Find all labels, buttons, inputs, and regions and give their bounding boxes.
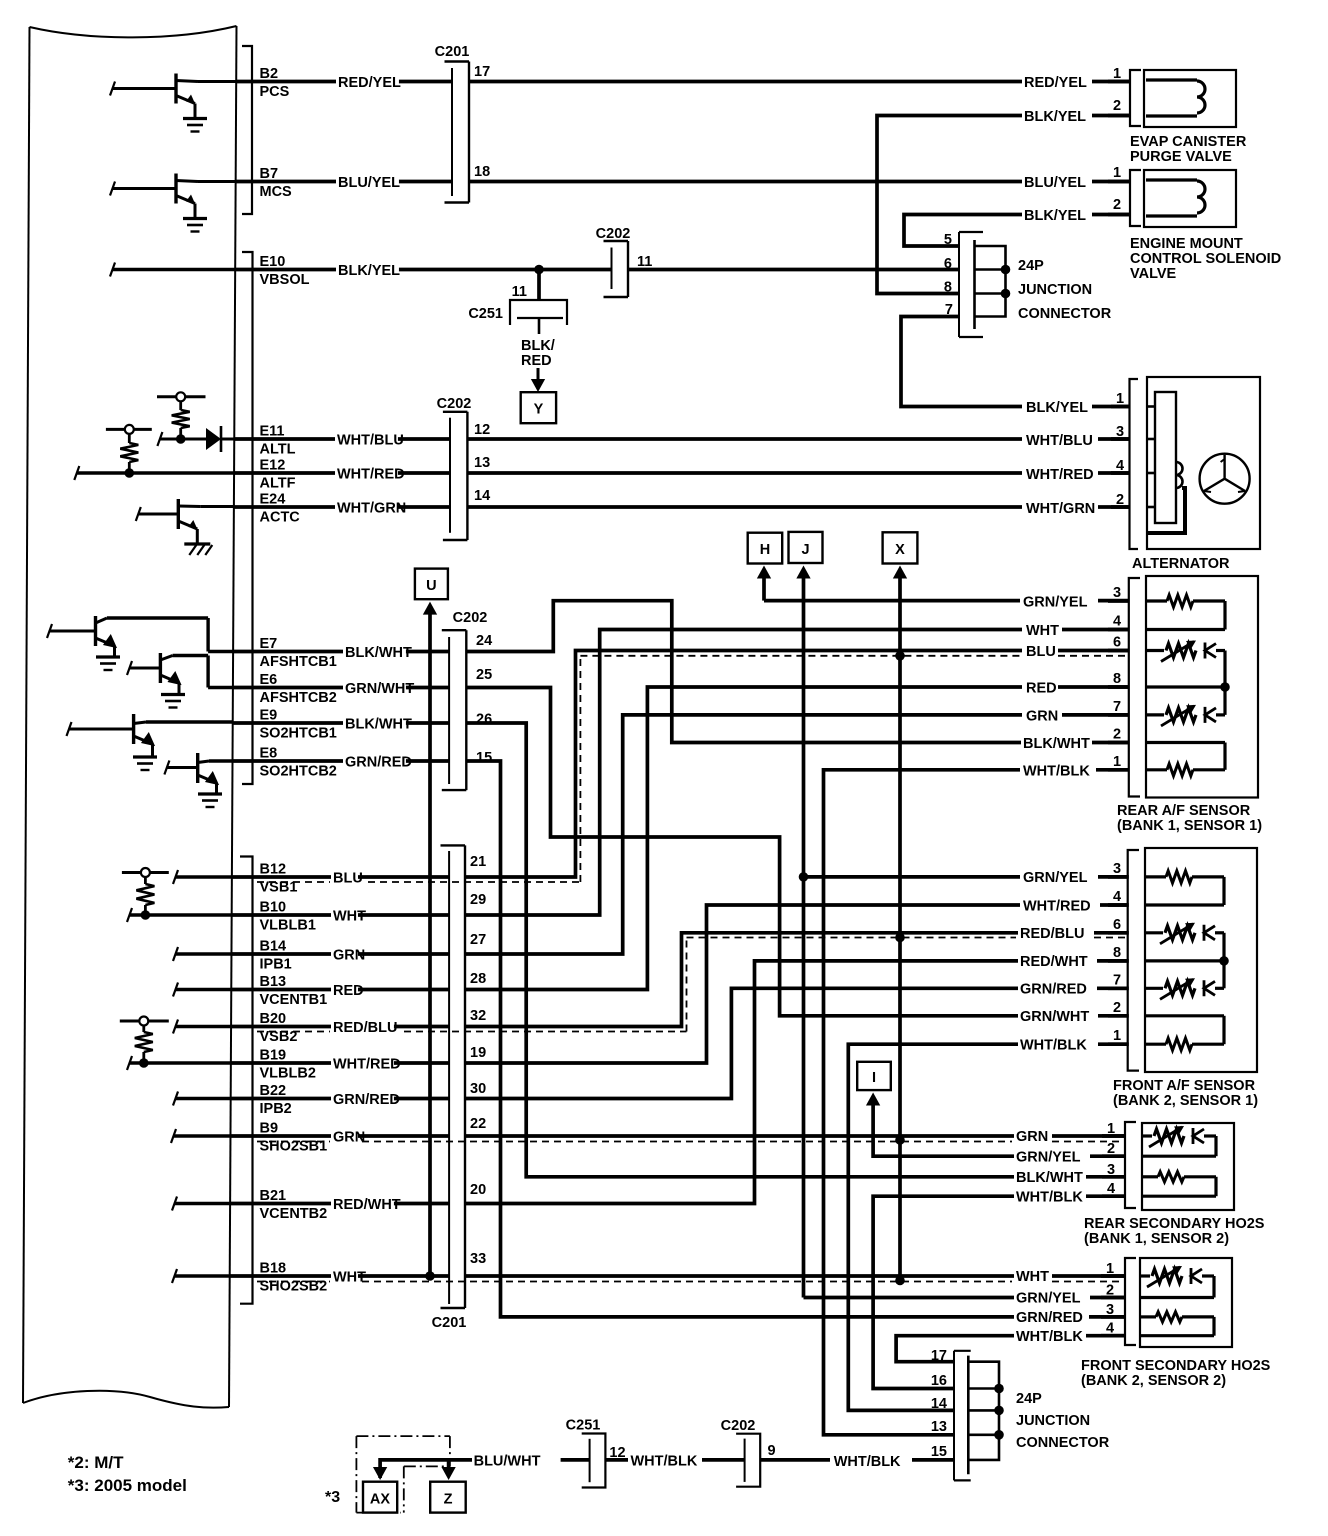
svg-text:24P: 24P <box>1016 1391 1042 1407</box>
wire BLU/WHT to C251 <box>561 1458 590 1462</box>
wire WHT/BLK front secondary pin4 to junction pin17 <box>1086 1334 1126 1338</box>
wire B19 to C201 <box>231 1061 449 1065</box>
wire WHT/BLK front A/F pin1 to junction pin14 <box>1098 1042 1129 1046</box>
label WHT/GRN on E24 wire <box>335 501 398 514</box>
svg-text:GRN/YEL: GRN/YEL <box>1023 595 1088 611</box>
wire B20 internal <box>173 1020 178 1034</box>
label BLK/YEL (alternator) <box>1024 401 1087 414</box>
svg-text:2: 2 <box>1113 1000 1121 1016</box>
svg-text:WHT/BLK: WHT/BLK <box>1016 1329 1083 1345</box>
svg-text:26: 26 <box>476 712 492 728</box>
svg-text:CONTROL SOLENOID: CONTROL SOLENOID <box>1130 251 1281 267</box>
svg-text:B21: B21 <box>260 1188 287 1204</box>
arrow into X <box>893 566 907 579</box>
wire E8 to C202 <box>233 759 450 763</box>
svg-text:30: 30 <box>470 1081 486 1097</box>
svg-text:21: 21 <box>470 854 486 870</box>
rear A/F sensor heater row 7 <box>1146 713 1164 716</box>
svg-text:GRN/YEL: GRN/YEL <box>1023 870 1088 886</box>
svg-text:29: 29 <box>470 892 486 908</box>
label BLK/WHT on E7 wire <box>343 646 406 659</box>
svg-text:Y: Y <box>534 402 544 418</box>
svg-text:RED/WHT: RED/WHT <box>1020 954 1088 970</box>
label BLU/YEL on B7 wire <box>336 176 399 189</box>
rear A/F sensor row 8 junction <box>1146 685 1225 688</box>
svg-text:RED: RED <box>333 983 364 999</box>
svg-text:JUNCTION: JUNCTION <box>1016 1413 1090 1429</box>
rear A/F sensor heater row 6 <box>1146 649 1164 652</box>
wire B12 internal <box>173 870 178 884</box>
svg-text:WHT/RED: WHT/RED <box>1023 899 1091 915</box>
transistor Q3 (ACTC driver) <box>177 499 180 529</box>
arrow into H <box>757 566 771 579</box>
svg-text:BLU/YEL: BLU/YEL <box>1024 175 1086 191</box>
transistor Q7 (SO2HTCB2 driver) <box>196 753 199 783</box>
engine mount valve bracket <box>1130 170 1141 226</box>
label WHT/RED right <box>1024 468 1087 481</box>
connector box H <box>748 533 783 564</box>
wire B2 RED/YEL to C201 <box>236 80 452 84</box>
pin group bracket B2-B7 <box>242 46 252 214</box>
wire RED pin28 to rear A/F pin8 <box>465 687 1022 990</box>
svg-text:CONNECTOR: CONNECTOR <box>1018 306 1112 322</box>
svg-text:RED/WHT: RED/WHT <box>333 1197 401 1213</box>
wire E10 BLK/YEL to junction connector <box>235 268 611 272</box>
svg-text:BLK/YEL: BLK/YEL <box>338 263 400 279</box>
connector box X <box>883 532 918 563</box>
wire B9 internal <box>171 1129 176 1143</box>
label WHT/RED on E12 wire <box>335 467 398 480</box>
svg-text:(BANK 1, SENSOR 1): (BANK 1, SENSOR 1) <box>1117 818 1262 834</box>
svg-text:(BANK 2, SENSOR 1): (BANK 2, SENSOR 1) <box>1113 1093 1258 1109</box>
svg-text:B22: B22 <box>260 1083 287 1099</box>
svg-text:7: 7 <box>1113 972 1121 988</box>
svg-text:B14: B14 <box>260 939 287 955</box>
alternator body <box>1147 377 1260 549</box>
label BLK/YEL (engine mount) <box>1022 209 1085 222</box>
svg-text:BLK/WHT: BLK/WHT <box>1023 736 1090 752</box>
wire B22 internal <box>173 1092 178 1106</box>
label RED on B13 wire <box>331 984 358 997</box>
wire B20 to C201 <box>231 1025 449 1029</box>
svg-text:WHT/RED: WHT/RED <box>1026 467 1094 483</box>
svg-text:E11: E11 <box>260 424 285 440</box>
svg-text:VBSOL: VBSOL <box>260 272 310 288</box>
connector box I <box>857 1062 891 1090</box>
svg-text:ALTF: ALTF <box>260 476 296 492</box>
svg-text:FRONT A/F SENSOR: FRONT A/F SENSOR <box>1113 1078 1256 1094</box>
label WHT/GRN right <box>1024 502 1087 515</box>
wire B19 internal <box>127 1056 132 1070</box>
svg-text:B20: B20 <box>260 1011 287 1027</box>
junction dot B19 node <box>139 1058 149 1068</box>
svg-text:C202: C202 <box>453 610 488 626</box>
wire GRN/YEL front A/F pin3 <box>804 875 1021 879</box>
connector box J <box>789 532 823 563</box>
svg-text:RED/YEL: RED/YEL <box>1024 75 1087 91</box>
rear secondary HO2S bracket <box>1125 1122 1136 1208</box>
wire B9 to C201 <box>230 1134 449 1138</box>
wire B13 internal <box>173 983 178 997</box>
wire BLK/WHT pin24 to rear A/F pin2 <box>466 601 1022 743</box>
transistor Q5 (AFSHTCB2 driver) <box>159 653 162 683</box>
wire GRN/WHT pin25 to front A/F pin2 <box>466 688 1022 1016</box>
wire BLK/YEL engine mount pin2 <box>1092 213 1130 217</box>
svg-text:ALTERNATOR: ALTERNATOR <box>1132 556 1230 572</box>
connector box AX <box>363 1482 397 1513</box>
EVAP valve bracket <box>1130 70 1141 126</box>
svg-text:SO2HTCB1: SO2HTCB1 <box>260 726 337 742</box>
svg-text:15: 15 <box>931 1444 947 1460</box>
shield dashes B9 GRN net <box>257 1141 330 1143</box>
svg-text:E9: E9 <box>260 708 278 724</box>
wire GRN/RED pin15 to front secondary HO2S pin3 <box>466 761 1014 1317</box>
front secondary HO2S bracket <box>1125 1258 1136 1345</box>
svg-text:22: 22 <box>470 1116 486 1132</box>
svg-text:4: 4 <box>1113 614 1121 630</box>
svg-text:WHT: WHT <box>333 1270 366 1286</box>
svg-text:GRN/RED: GRN/RED <box>1016 1310 1083 1326</box>
transistor Q6 (SO2HTCB1 driver) <box>132 714 135 744</box>
wire WHT pin29 to rear A/F pin4 <box>465 630 1022 916</box>
wire WHT/BLK rear secondary pin4 to junction pin16 <box>1086 1194 1126 1198</box>
svg-text:E24: E24 <box>260 492 286 508</box>
svg-text:7: 7 <box>1113 699 1121 715</box>
wire B14 internal <box>173 947 178 961</box>
svg-text:24: 24 <box>476 633 492 649</box>
svg-text:REAR A/F SENSOR: REAR A/F SENSOR <box>1117 803 1251 819</box>
wire GRN pin22 to rear secondary HO2S pin1 <box>465 1134 1014 1138</box>
svg-text:2: 2 <box>1113 727 1121 743</box>
svg-text:BLU: BLU <box>333 871 363 887</box>
svg-text:17: 17 <box>474 64 490 80</box>
wire GRN/RED pin30 to front A/F pin7 <box>465 988 1018 1098</box>
svg-text:X: X <box>895 542 905 558</box>
svg-text:24P: 24P <box>1018 258 1044 274</box>
svg-text:WHT/BLK: WHT/BLK <box>1020 1038 1087 1054</box>
junction dot 24P pin6 <box>1001 265 1011 275</box>
wire GRN pin27 to rear A/F pin7 <box>465 715 1022 954</box>
svg-text:WHT: WHT <box>1026 623 1059 639</box>
svg-text:BLK/WHT: BLK/WHT <box>345 645 412 661</box>
shield dashes B18 WHT net <box>257 1281 330 1283</box>
wire C251 branch down <box>537 270 541 301</box>
svg-text:13: 13 <box>474 455 490 471</box>
svg-text:U: U <box>426 578 436 594</box>
label BLK/WHT on E9 wire <box>343 717 406 730</box>
svg-text:REAR SECONDARY HO2S: REAR SECONDARY HO2S <box>1084 1216 1265 1232</box>
svg-text:WHT/BLK: WHT/BLK <box>631 1454 698 1470</box>
svg-text:J: J <box>801 542 809 558</box>
branch to Z <box>447 1460 451 1467</box>
svg-text:1: 1 <box>1113 754 1121 770</box>
svg-text:28: 28 <box>470 971 486 987</box>
svg-text:B12: B12 <box>260 862 287 878</box>
labels front secondary HO2S wires <box>1014 1270 1041 1283</box>
svg-text:VCENTB1: VCENTB1 <box>260 992 328 1008</box>
labels rear secondary HO2S wires <box>1014 1130 1041 1143</box>
svg-text:WHT/GRN: WHT/GRN <box>337 501 406 517</box>
wire B21 to C201 <box>230 1202 449 1206</box>
svg-text:VCENTB2: VCENTB2 <box>260 1206 328 1222</box>
wire B18 internal <box>172 1269 177 1283</box>
front A/F sensor connector bracket <box>1128 850 1139 1071</box>
svg-text:C251: C251 <box>468 306 503 322</box>
svg-text:GRN/YEL: GRN/YEL <box>1016 1291 1081 1307</box>
label WHT/BLU on E11 wire <box>335 433 398 446</box>
svg-text:GRN/RED: GRN/RED <box>1020 982 1087 998</box>
front secondary HO2S heater rows 1-2 <box>1140 1274 1150 1277</box>
wire B21 internal <box>172 1197 177 1211</box>
wire E12 to C202 <box>234 471 450 475</box>
svg-text:GRN/WHT: GRN/WHT <box>345 681 414 697</box>
svg-text:BLK/YEL: BLK/YEL <box>1026 400 1088 416</box>
arrow into AX <box>373 1467 387 1480</box>
svg-text:PURGE VALVE: PURGE VALVE <box>1130 149 1232 165</box>
wire E6 to C202 <box>233 686 449 690</box>
arrow into U <box>423 602 437 615</box>
rear A/F sensor body <box>1146 576 1258 798</box>
pull-up circuit for VLBLB1 (circle, resistor R3) <box>122 871 169 874</box>
svg-text:WHT/BLK: WHT/BLK <box>834 1454 901 1470</box>
wire GRN/YEL net J vertical <box>802 577 806 1298</box>
wire RED/BLU pin32 to front A/F pin6 <box>465 933 1018 1027</box>
wire 13 WHT/RED <box>467 471 1022 475</box>
svg-text:ALTL: ALTL <box>260 442 296 458</box>
label GRN/WHT on E6 wire <box>343 682 406 695</box>
label WHT on B18 wire <box>331 1270 358 1283</box>
transistor Q4 (AFSHTCB1 driver) <box>94 616 97 646</box>
front A/F sensor internal rows 2-1 <box>1145 1014 1224 1017</box>
svg-text:PCS: PCS <box>260 84 290 100</box>
rear secondary HO2S body <box>1142 1123 1234 1210</box>
svg-text:GRN: GRN <box>1016 1129 1048 1145</box>
svg-text:11: 11 <box>637 254 652 270</box>
wire BLK/YEL EVAP pin2 <box>1092 114 1130 118</box>
rear A/F sensor connector bracket <box>1129 578 1140 797</box>
svg-text:WHT/BLK: WHT/BLK <box>1023 764 1090 780</box>
EVAP valve body <box>1144 70 1236 127</box>
svg-text:14: 14 <box>931 1396 947 1412</box>
label RED/YEL on B2 wire <box>336 76 399 89</box>
svg-text:SO2HTCB2: SO2HTCB2 <box>260 764 337 780</box>
svg-text:1: 1 <box>1113 66 1121 82</box>
wire B14 to C201 <box>231 952 449 956</box>
label GRN on B14 wire <box>331 948 358 961</box>
svg-text:Z: Z <box>444 1492 453 1508</box>
front A/F sensor heater row 6 <box>1145 931 1163 934</box>
label WHT on B10 wire <box>331 909 358 922</box>
svg-text:6: 6 <box>1113 635 1121 651</box>
wire BLU/WHT to AX/Z <box>380 1460 472 1478</box>
svg-text:IPB1: IPB1 <box>260 957 292 973</box>
svg-text:C201: C201 <box>432 1315 467 1331</box>
svg-text:BLK/YEL: BLK/YEL <box>1024 109 1086 125</box>
svg-text:GRN/WHT: GRN/WHT <box>1020 1009 1089 1025</box>
connector C201 (long, pins 21-33) <box>441 844 466 846</box>
svg-text:RED/BLU: RED/BLU <box>333 1020 397 1036</box>
svg-text:18: 18 <box>474 164 490 180</box>
wire GRN/YEL rear secondary pin2 from I box <box>1090 1154 1126 1158</box>
wire WHT/BLK C202 to junction pin15 <box>760 1458 830 1462</box>
pull-up circuit for ALTF (circle, resistor R2) <box>106 428 152 431</box>
svg-text:1: 1 <box>1113 165 1121 181</box>
svg-text:GRN/RED: GRN/RED <box>345 755 412 771</box>
svg-text:2: 2 <box>1113 197 1121 213</box>
svg-text:VSB2: VSB2 <box>260 1029 298 1045</box>
svg-text:AFSHTCB1: AFSHTCB1 <box>260 654 337 670</box>
junction dot X WHT shield <box>895 1276 905 1286</box>
wire B7 BLU/YEL to C201 <box>236 180 452 184</box>
wire E24 to C202 <box>234 505 450 509</box>
label WHT/RED on B19 wire <box>331 1057 394 1070</box>
pull-up circuit for ALTL (circle, resistor R1) <box>157 395 206 398</box>
svg-text:C202: C202 <box>437 396 472 412</box>
front A/F sensor body <box>1145 848 1257 1072</box>
svg-text:ENGINE MOUNT: ENGINE MOUNT <box>1130 236 1243 252</box>
label BLU/YEL right <box>1022 176 1085 189</box>
svg-text:CONNECTOR: CONNECTOR <box>1016 1435 1110 1451</box>
front A/F sensor heater row 7 <box>1145 987 1163 990</box>
front A/F sensor row 8 junction <box>1145 959 1224 962</box>
junction dot bottom 24P pin16 <box>994 1384 1004 1394</box>
wire E7 to C202 <box>233 650 449 654</box>
svg-text:13: 13 <box>931 1419 947 1435</box>
wire 14 WHT/GRN <box>467 505 1022 509</box>
svg-text:BLK/WHT: BLK/WHT <box>1016 1170 1083 1186</box>
wire GRN/YEL front secondary pin2 <box>804 1296 1015 1300</box>
svg-text:(BANK 2, SENSOR 2): (BANK 2, SENSOR 2) <box>1081 1373 1226 1389</box>
wire E11 to C202 <box>234 437 450 441</box>
svg-text:B13: B13 <box>260 974 287 990</box>
connector box Y <box>521 392 556 423</box>
alternator field coil <box>1176 462 1183 488</box>
wire B10 internal <box>127 908 132 922</box>
junction dot B10 node <box>141 910 151 920</box>
wire B12 to C201 <box>232 875 449 879</box>
junction dot 24P pin8 <box>1001 289 1011 299</box>
rear A/F sensor internal rows 2-1 <box>1146 741 1225 744</box>
wire E9 to C202 <box>233 721 449 725</box>
svg-text:C201: C201 <box>435 44 470 60</box>
wire WHT/BLK rear A/F pin1 to junction pin13 <box>1096 768 1129 772</box>
svg-text:E8: E8 <box>260 746 278 762</box>
rear A/F sensor internal resistor rows 3-4 <box>1146 599 1167 602</box>
svg-text:27: 27 <box>470 932 486 948</box>
svg-text:AX: AX <box>370 1492 390 1508</box>
svg-text:1: 1 <box>1116 391 1124 407</box>
svg-text:6: 6 <box>1113 917 1121 933</box>
svg-text:9: 9 <box>768 1443 776 1459</box>
svg-text:19: 19 <box>470 1045 486 1061</box>
svg-text:BLK/WHT: BLK/WHT <box>345 717 412 733</box>
label GRN/RED on E8 wire <box>343 755 406 768</box>
svg-text:VLBLB1: VLBLB1 <box>260 918 316 934</box>
svg-text:B19: B19 <box>260 1048 287 1064</box>
svg-text:BLU/YEL: BLU/YEL <box>338 175 400 191</box>
svg-text:16: 16 <box>931 1373 947 1389</box>
svg-text:IPB2: IPB2 <box>260 1101 292 1117</box>
svg-text:E7: E7 <box>260 636 278 652</box>
junction dot J front A/F GRN/YEL <box>799 872 809 882</box>
svg-text:4: 4 <box>1113 889 1121 905</box>
transistor Q2 (MCS driver) <box>174 174 177 204</box>
svg-text:VALVE: VALVE <box>1130 266 1177 282</box>
arrow into J <box>796 566 810 579</box>
svg-text:WHT/RED: WHT/RED <box>333 1057 401 1073</box>
svg-text:8: 8 <box>944 280 952 296</box>
svg-text:*3: 2005 model: *3: 2005 model <box>68 1476 187 1495</box>
wire 24P pin7 to alternator pin1 <box>901 317 1022 407</box>
svg-text:*3: *3 <box>325 1489 340 1506</box>
svg-text:BLU/WHT: BLU/WHT <box>474 1454 541 1470</box>
svg-text:GRN/YEL: GRN/YEL <box>1016 1150 1081 1166</box>
junction dot E10/C251 branch <box>534 265 544 275</box>
junction dot U-WHT shield <box>425 1271 435 1281</box>
label BLU on B12 wire <box>331 871 358 884</box>
junction dot X RED/BLU shield <box>895 933 905 943</box>
wire BLU pin21 to rear A/F pin6 <box>465 651 1022 878</box>
front A/F sensor internal resistor rows 3-4 <box>1145 875 1166 878</box>
svg-text:BLK/: BLK/ <box>521 338 555 354</box>
svg-text:E12: E12 <box>260 458 286 474</box>
svg-text:25: 25 <box>476 667 492 683</box>
label RED/WHT on B21 wire <box>331 1198 394 1211</box>
junction dot bottom 24P pin14 <box>994 1406 1004 1416</box>
wire B18 to C201 <box>230 1274 449 1278</box>
svg-text:E10: E10 <box>260 254 286 270</box>
svg-text:WHT/RED: WHT/RED <box>337 467 405 483</box>
svg-text:JUNCTION: JUNCTION <box>1018 282 1092 298</box>
junction dot X GRN shield <box>895 1135 905 1145</box>
svg-text:RED/YEL: RED/YEL <box>338 75 401 91</box>
wire 12 WHT/BLU <box>467 437 1022 441</box>
arrow to Y <box>537 368 540 381</box>
front secondary HO2S body <box>1140 1258 1232 1347</box>
wire B22 to C201 <box>231 1097 449 1101</box>
pin group bracket B12-B18 <box>240 857 253 1304</box>
svg-text:AFSHTCB2: AFSHTCB2 <box>260 690 337 706</box>
label WHT/BLU right <box>1024 434 1087 447</box>
svg-text:ACTC: ACTC <box>260 510 301 526</box>
wire shield drain X vertical <box>898 577 902 1281</box>
wire BLK/WHT pin26 to rear secondary HO2S pin3 <box>466 723 1014 1177</box>
24P junction connector (top) <box>959 231 983 233</box>
svg-text:B9: B9 <box>260 1121 279 1137</box>
wire WHT/BLK C251-C202 <box>605 1458 628 1462</box>
rear secondary HO2S heater rows 1-2 <box>1142 1134 1152 1137</box>
connector box U <box>415 569 448 600</box>
ECM control module box <box>30 26 237 37</box>
junction dot E11 node <box>176 434 186 444</box>
wire GRN/YEL rear A/F pin3 via H <box>762 577 766 601</box>
svg-text:C251: C251 <box>566 1418 601 1434</box>
arrow into I <box>866 1093 880 1106</box>
front secondary HO2S resistor rows 3-4 <box>1140 1315 1156 1318</box>
svg-text:BLU: BLU <box>1026 644 1056 660</box>
svg-text:RED/BLU: RED/BLU <box>1020 926 1084 942</box>
pull-up circuit for VLBLB2 (circle, resistor R4) <box>120 1020 169 1023</box>
svg-text:GRN/RED: GRN/RED <box>333 1092 400 1108</box>
svg-text:GRN: GRN <box>333 1130 365 1146</box>
dash-dot M/T enclosure <box>356 1435 450 1437</box>
svg-text:12: 12 <box>474 422 490 438</box>
alternator rotor symbol <box>1200 454 1250 504</box>
svg-text:B18: B18 <box>260 1261 287 1277</box>
engine mount valve body <box>1144 170 1236 227</box>
label BLK/YEL on E10 wire <box>336 264 399 277</box>
wire U vertical <box>428 612 432 1276</box>
